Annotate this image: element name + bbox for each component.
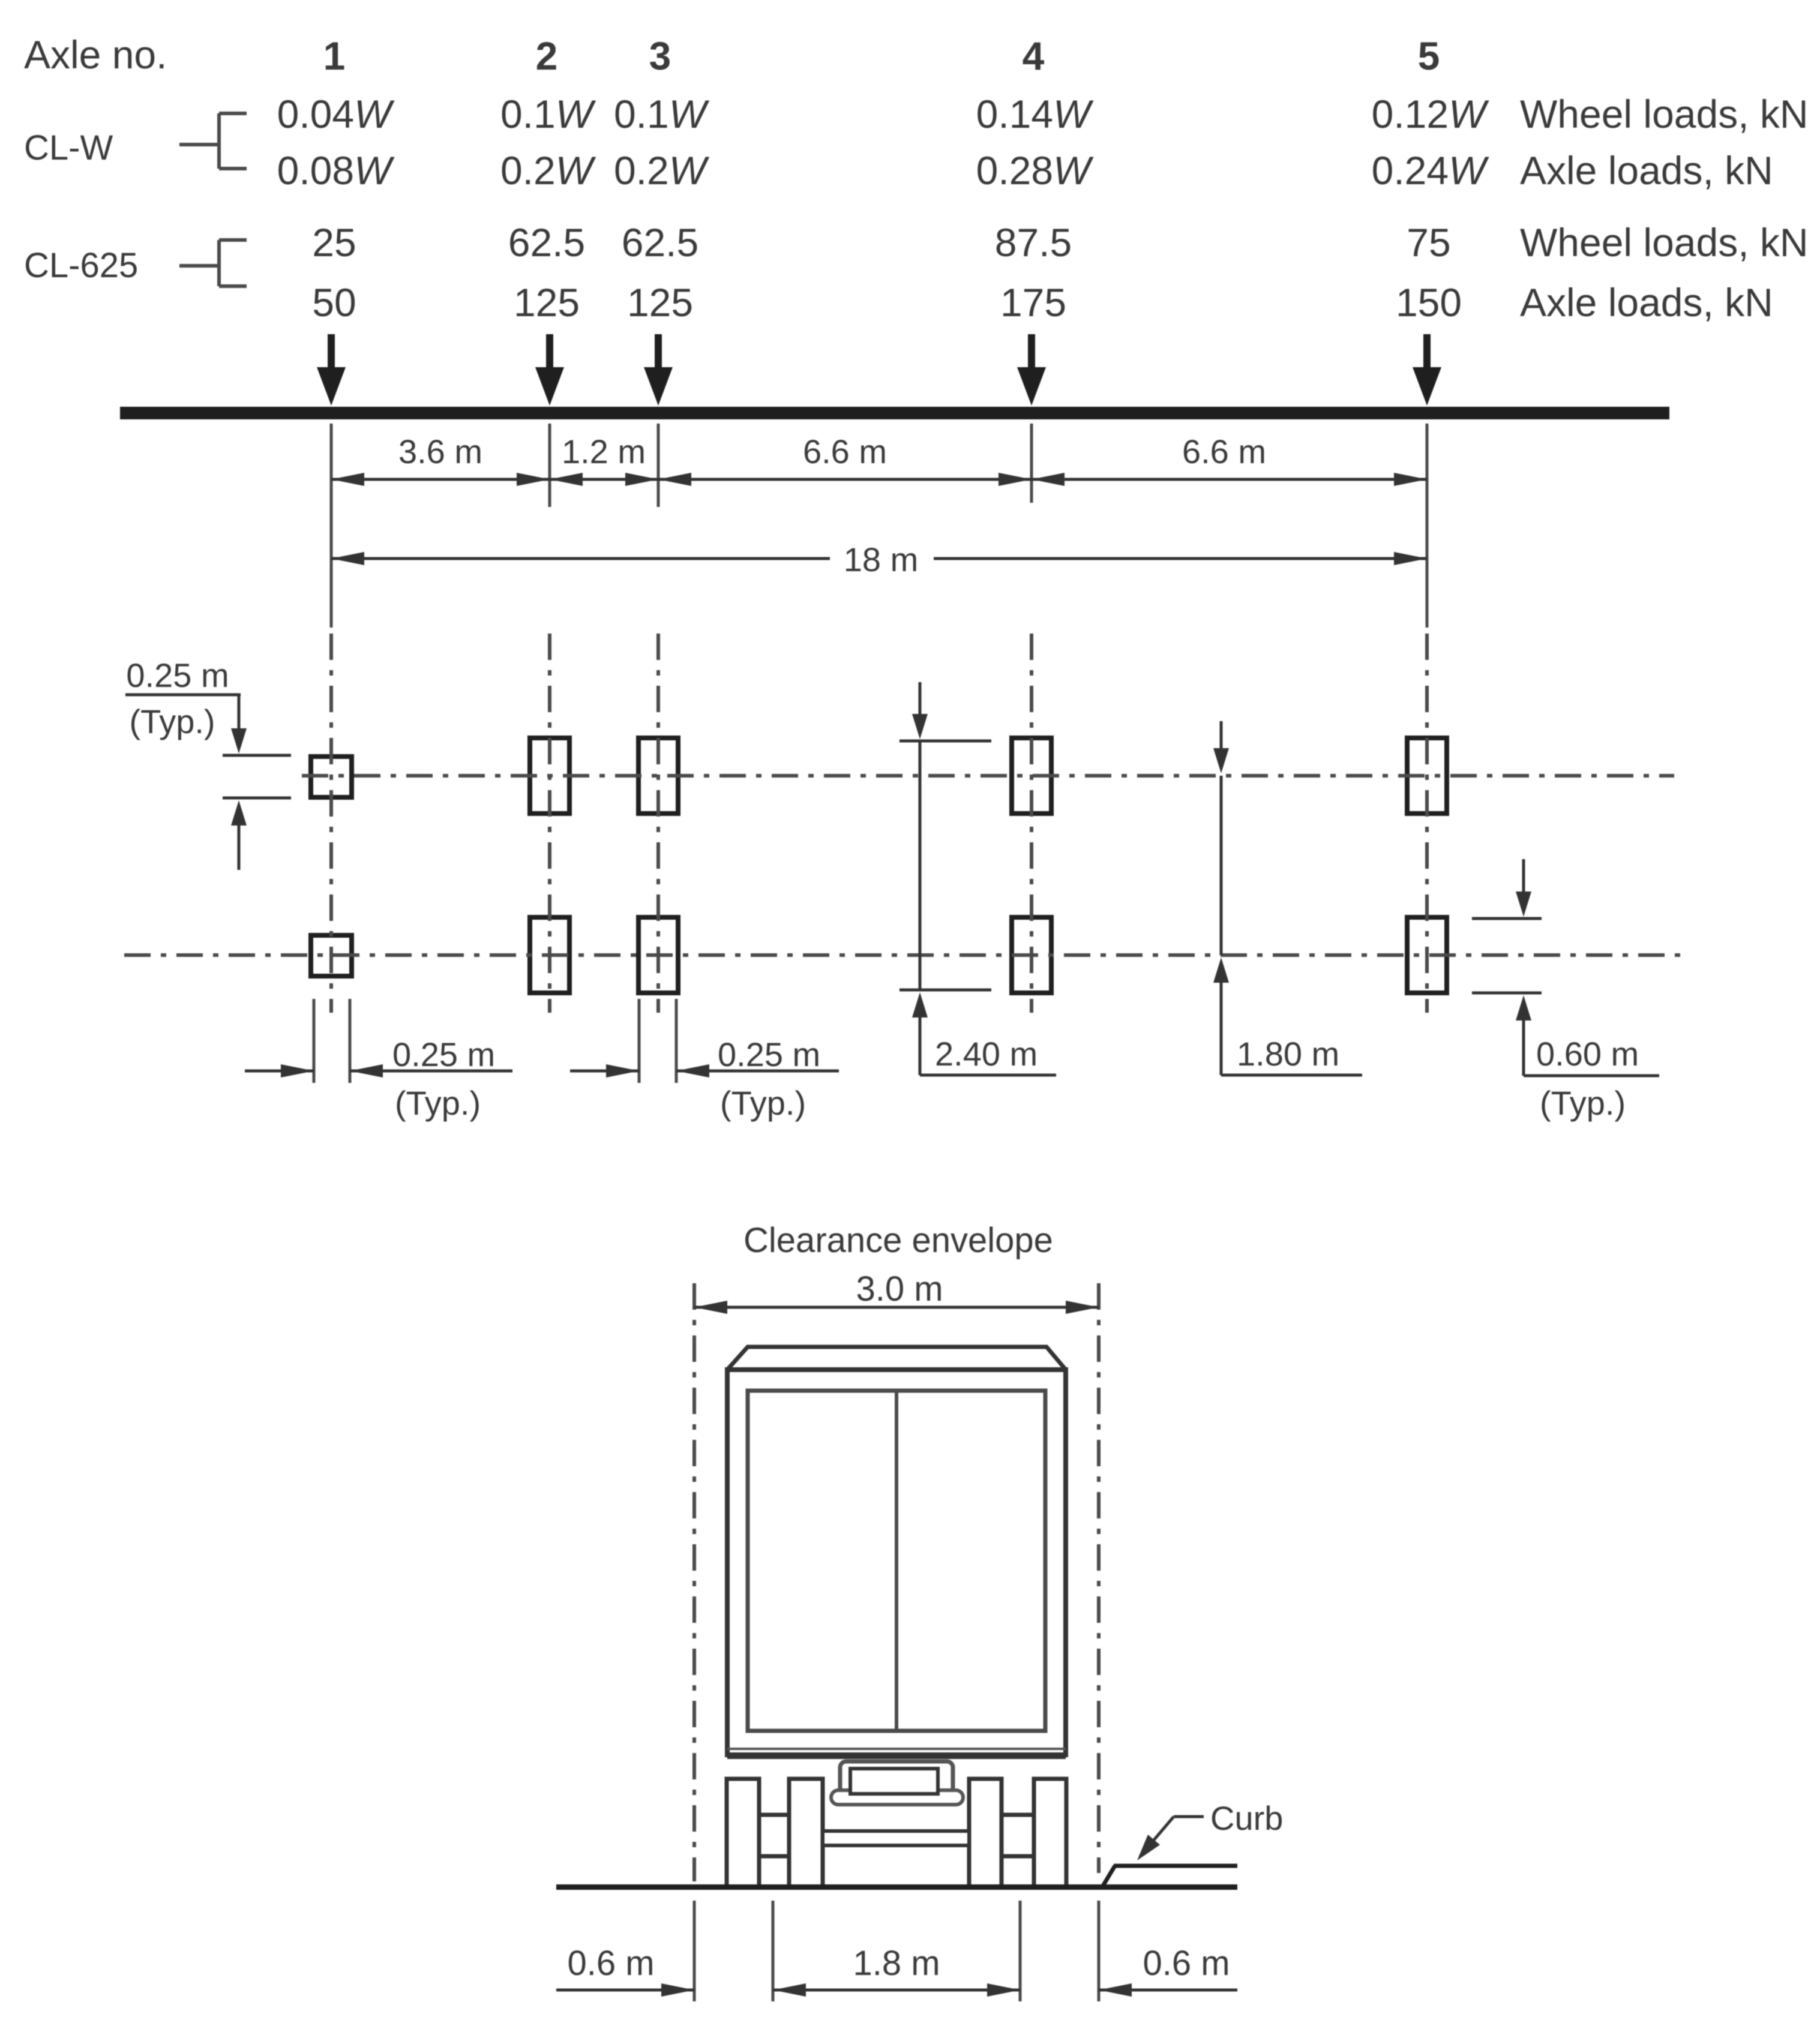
svg-text:Axle loads, kN: Axle loads, kN [1520,148,1773,193]
svg-text:0.6 m: 0.6 m [567,1944,654,1983]
svg-text:0.1W: 0.1W [500,92,596,136]
svg-text:Axle loads, kN: Axle loads, kN [1520,280,1773,325]
svg-text:1.2 m: 1.2 m [562,433,646,470]
svg-text:6.6 m: 6.6 m [1182,433,1266,470]
svg-text:150: 150 [1396,280,1462,325]
svg-text:0.04W: 0.04W [277,92,395,136]
svg-text:CL-625: CL-625 [24,246,138,285]
svg-text:3: 3 [649,34,671,78]
svg-text:Axle no.: Axle no. [24,32,167,77]
svg-text:0.60 m: 0.60 m [1536,1035,1639,1073]
svg-text:Curb: Curb [1210,1799,1283,1837]
svg-text:3.0 m: 3.0 m [856,1269,943,1308]
svg-text:6.6 m: 6.6 m [803,433,887,470]
svg-text:2: 2 [536,34,558,78]
svg-text:(Typ.): (Typ.) [129,703,215,740]
svg-text:1.8 m: 1.8 m [853,1944,940,1983]
svg-text:25: 25 [312,220,356,265]
svg-text:0.6 m: 0.6 m [1143,1944,1230,1983]
svg-text:18 m: 18 m [844,541,919,578]
svg-text:0.28W: 0.28W [976,148,1094,193]
svg-text:(Typ.): (Typ.) [1540,1084,1626,1122]
svg-text:125: 125 [627,280,693,325]
svg-text:0.08W: 0.08W [277,148,395,193]
svg-text:125: 125 [514,280,580,325]
svg-text:(Typ.): (Typ.) [395,1084,481,1122]
svg-text:0.14W: 0.14W [976,92,1094,136]
svg-text:CL-W: CL-W [24,128,113,167]
svg-text:Clearance envelope: Clearance envelope [743,1221,1053,1260]
svg-text:50: 50 [312,280,356,325]
svg-text:4: 4 [1023,34,1045,78]
svg-text:0.25 m: 0.25 m [718,1035,820,1073]
svg-text:1.80 m: 1.80 m [1237,1035,1339,1073]
svg-text:Wheel loads, kN: Wheel loads, kN [1520,92,1809,136]
svg-text:0.24W: 0.24W [1372,148,1489,193]
svg-text:1: 1 [323,34,346,78]
svg-text:0.25 m: 0.25 m [126,656,229,694]
svg-text:2.40 m: 2.40 m [935,1035,1038,1073]
svg-text:0.12W: 0.12W [1372,92,1489,136]
svg-text:0.2W: 0.2W [614,148,710,193]
svg-text:Wheel loads, kN: Wheel loads, kN [1520,220,1809,265]
svg-text:0.25 m: 0.25 m [392,1035,495,1073]
svg-text:5: 5 [1418,34,1440,78]
svg-text:3.6 m: 3.6 m [398,433,482,470]
svg-text:62.5: 62.5 [622,220,698,265]
svg-text:62.5: 62.5 [508,220,585,265]
svg-text:175: 175 [1000,280,1066,325]
svg-text:75: 75 [1407,220,1450,265]
svg-text:0.1W: 0.1W [614,92,710,136]
svg-text:0.2W: 0.2W [500,148,596,193]
svg-text:(Typ.): (Typ.) [720,1084,806,1122]
svg-text:87.5: 87.5 [995,220,1072,265]
